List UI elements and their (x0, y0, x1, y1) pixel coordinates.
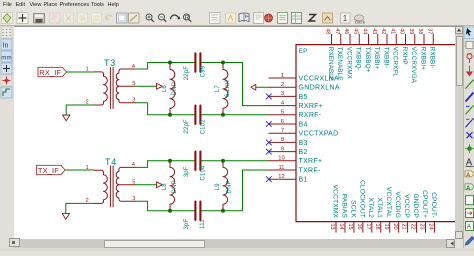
svg-text:38: 38 (417, 28, 423, 34)
svg-text:VCCCP: VCCCP (403, 194, 410, 218)
inductor L6 (170, 63, 175, 115)
svg-text:RXHP: RXHP (401, 47, 408, 65)
svg-text:A: A (467, 224, 472, 231)
svg-text:7: 7 (281, 128, 284, 134)
svg-text:13: 13 (329, 224, 335, 230)
svg-text:3pF: 3pF (184, 166, 190, 177)
svg-text:A: A (466, 173, 470, 179)
svg-text:Back: Back (355, 20, 366, 25)
wire T4 bottom rail right segment to IC pin11 (201, 170, 268, 211)
capacitor C102 (195, 106, 200, 124)
junction node T3 bottom right (221, 113, 225, 117)
svg-text:PABIAS: PABIAS (340, 194, 347, 219)
wire T3 top rail left segment (148, 62, 195, 64)
wire T4 pin5 dangling (135, 184, 156, 186)
C99 labels (184, 65, 207, 80)
svg-text:XTAL2: XTAL2 (367, 198, 374, 219)
transformer T4 (94, 166, 136, 207)
svg-text:C99: C99 (201, 65, 207, 77)
junction node T4 top right (221, 159, 225, 163)
svg-text:12: 12 (278, 174, 284, 180)
top toolbar (0, 11, 474, 26)
svg-text:3: 3 (132, 196, 135, 202)
svg-text:TXENABLE: TXENABLE (336, 47, 343, 81)
svg-text:11: 11 (278, 165, 284, 171)
svg-text:CPOUT-: CPOUT- (430, 192, 437, 218)
svg-text:46: 46 (343, 28, 349, 34)
svg-text:In: In (3, 43, 9, 50)
svg-text:10: 10 (278, 156, 284, 162)
junction node T4 bottom left (168, 209, 172, 213)
svg-text:TX_IF: TX_IF (38, 166, 59, 175)
svg-text:1: 1 (86, 165, 89, 171)
wire T3 pin4 to top rail (136, 63, 148, 70)
svg-text:DNP: DNP (172, 82, 178, 95)
wire TX_IF to T4 pin1 (65, 169, 94, 171)
svg-text:TXBBQ+: TXBBQ+ (364, 47, 371, 73)
wire T4 pin3 to bottom rail (136, 201, 148, 211)
svg-text:SCLK: SCLK (349, 200, 356, 218)
svg-text:42: 42 (380, 28, 386, 34)
svg-text:5: 5 (281, 110, 284, 116)
svg-text:L9: L9 (215, 183, 221, 191)
C104 labels (184, 165, 207, 181)
svg-text:43: 43 (371, 28, 377, 34)
IC top pin stubs 48-37 (332, 34, 434, 44)
no-connect flag pin3 (266, 94, 271, 99)
L6 labels (162, 82, 178, 95)
no-connect flag pin12 (266, 177, 271, 182)
svg-text:VCCDIG: VCCDIG (394, 191, 401, 218)
svg-text:1: 1 (281, 73, 284, 79)
svg-text:A: A (466, 185, 470, 191)
svg-text:R: R (185, 15, 190, 21)
T4 reference label (105, 157, 117, 167)
horizontal scrollbar (14, 239, 455, 248)
IC top pin names (327, 47, 436, 84)
svg-text:VCCRXMX: VCCRXMX (345, 47, 352, 80)
svg-text:8: 8 (281, 137, 284, 143)
svg-text:48: 48 (325, 28, 331, 34)
L9 labels (215, 180, 232, 193)
svg-text:T4: T4 (105, 157, 117, 167)
svg-text:2: 2 (86, 100, 89, 106)
svg-text:L8: L8 (162, 183, 168, 191)
svg-text:2: 2 (281, 82, 284, 88)
svg-text:GNDCP: GNDCP (412, 193, 419, 218)
inductor L7 (223, 63, 228, 115)
left toolbar (0, 26, 15, 251)
svg-text:TXBBQ-: TXBBQ- (355, 47, 362, 71)
svg-text:T3: T3 (104, 58, 116, 68)
svg-text:45: 45 (352, 28, 358, 34)
svg-text:20: 20 (392, 224, 398, 230)
svg-text:16: 16 (356, 224, 362, 230)
svg-text:37: 37 (426, 28, 432, 34)
wire T4 bottom rail left segment (148, 210, 195, 212)
junction node T4 top left (168, 159, 172, 163)
svg-text:TXRF+: TXRF+ (299, 158, 323, 165)
svg-text:1: 1 (343, 14, 348, 23)
marker triangle at T3 pin5 wire end (157, 83, 163, 89)
junction node T3 top left (168, 61, 172, 65)
svg-text:TXRF-: TXRF- (299, 167, 321, 174)
IC bottom pin stubs 13-24 (336, 222, 434, 233)
svg-text:XTAL1: XTAL1 (376, 198, 383, 219)
IC bottom pin names (331, 180, 436, 218)
svg-text:47: 47 (334, 28, 340, 34)
junction node T3 bottom left (168, 113, 172, 117)
svg-text:23: 23 (419, 224, 425, 230)
svg-text:DNP: DNP (227, 180, 233, 193)
svg-text:L6: L6 (162, 85, 168, 93)
svg-text:19: 19 (383, 224, 389, 230)
svg-text:RXRF-: RXRF- (299, 112, 322, 119)
svg-text:111: 111 (200, 219, 206, 229)
svg-text:24: 24 (428, 224, 434, 230)
svg-text:VCCRXFL: VCCRXFL (392, 47, 399, 77)
scrollbar corner button (9, 238, 20, 247)
T3 reference label (104, 58, 116, 68)
wire T3 top rail right segment to IC pin4 (201, 63, 268, 106)
svg-text:VCCTXMX: VCCTXMX (331, 185, 338, 219)
svg-text:RXRF+: RXRF+ (299, 103, 324, 110)
svg-text:CLOCKOUT: CLOCKOUT (358, 180, 365, 218)
svg-text:9: 9 (281, 146, 284, 152)
IC bottom pin numbers (329, 224, 433, 230)
svg-text:C104: C104 (201, 165, 207, 181)
capacitor C104 (195, 152, 200, 170)
svg-text:CPOUT+: CPOUT+ (421, 190, 428, 218)
svg-text:22pF: 22pF (184, 119, 190, 134)
svg-text:2: 2 (86, 198, 89, 204)
svg-text:14: 14 (338, 224, 344, 230)
T3 pin numbers (86, 64, 136, 106)
svg-text:B4: B4 (299, 121, 308, 128)
wire RX_IF to T3 pin1 (67, 71, 94, 73)
wire T4 top rail right segment to IC pin10 (201, 160, 268, 162)
IC U? body outline (296, 45, 456, 222)
wire T4 pin4 to top rail (136, 161, 148, 168)
junction node T4 bottom right (221, 209, 225, 213)
svg-text:21: 21 (401, 224, 407, 230)
svg-text:22: 22 (410, 224, 416, 230)
status bar (0, 248, 474, 251)
inductor L9 (223, 161, 228, 211)
IC pin EP name (299, 48, 308, 55)
wire T3 bottom rail right segment to IC pin5 (201, 114, 268, 116)
svg-text:VCCTXPAD: VCCTXPAD (299, 131, 339, 138)
svg-text:18: 18 (374, 224, 380, 230)
IC left pin numbers (278, 73, 285, 180)
IC left pin names (299, 75, 340, 183)
svg-text:44: 44 (362, 28, 368, 34)
svg-text:RXENABLE: RXENABLE (327, 47, 334, 81)
C102 labels (184, 119, 207, 135)
svg-text:C102: C102 (201, 119, 207, 135)
svg-text:VCCRXVGA: VCCRXVGA (410, 47, 417, 84)
wire IC pin2 dangling (256, 86, 269, 88)
svg-text:22pF: 22pF (184, 66, 190, 81)
svg-text:L7: L7 (215, 85, 221, 93)
schematic canvas (14, 26, 455, 240)
inductor L8 (170, 161, 175, 211)
svg-text:B3: B3 (299, 140, 308, 147)
svg-text:RXBBI+: RXBBI+ (419, 47, 426, 70)
wire T3 pin2 to ground (66, 105, 94, 115)
svg-text:TXBBI-: TXBBI- (382, 47, 389, 68)
svg-text:B5: B5 (299, 94, 308, 101)
wire T3 pin3 to bottom rail (136, 103, 148, 115)
global label TX_IF (37, 165, 66, 175)
IC top pin numbers (325, 28, 433, 34)
svg-text:41: 41 (389, 28, 395, 34)
L7 labels (215, 80, 231, 97)
svg-text:RX_IF: RX_IF (39, 68, 61, 77)
vertical scrollbar (455, 26, 463, 239)
global label RX_IF (38, 67, 67, 77)
no-connect flag pin8 (266, 140, 271, 145)
wire T3 pin5 dangling (135, 85, 156, 87)
right toolbar (463, 26, 474, 251)
svg-text:EP: EP (299, 48, 308, 55)
svg-text:RXBBI-: RXBBI- (429, 47, 436, 69)
svg-text:3: 3 (132, 98, 135, 104)
svg-text:A: A (466, 157, 472, 167)
svg-text:TXBBI+: TXBBI+ (373, 47, 380, 70)
IC left pin lines 1-12 (269, 78, 296, 179)
C111 labels (184, 218, 206, 229)
no-connect flag pin6 (266, 121, 271, 126)
wire T3 bottom rail left segment (148, 114, 195, 116)
svg-text:39: 39 (408, 28, 414, 34)
T4 pin numbers (86, 162, 136, 204)
ground (63, 115, 71, 121)
svg-text:3pF: 3pF (184, 218, 190, 229)
svg-text:1: 1 (86, 67, 89, 73)
svg-text:15: 15 (347, 224, 353, 230)
svg-text:6.2nH: 6.2nH (225, 80, 231, 97)
svg-text:B2: B2 (299, 149, 308, 156)
svg-text:3: 3 (281, 91, 284, 97)
ground T4 (62, 213, 70, 219)
svg-text:GNDRXLNA: GNDRXLNA (299, 85, 340, 92)
svg-text:6: 6 (281, 119, 284, 125)
L8 labels (162, 180, 178, 193)
no-connect flag pin9 (266, 149, 271, 154)
svg-text:DNP: DNP (172, 180, 178, 193)
svg-text:VCCXTAL: VCCXTAL (385, 187, 392, 218)
marker triangle at IC pin2 wire end (251, 84, 256, 90)
wire T4 top rail left segment (148, 160, 195, 162)
marker triangle at T4 pin5 wire end (157, 182, 163, 188)
svg-text:40: 40 (399, 28, 405, 34)
junction node T3 top right (221, 61, 225, 65)
transformer T3 (94, 68, 136, 109)
capacitor C99 (195, 53, 200, 71)
svg-text:B1: B1 (299, 177, 308, 184)
svg-text:17: 17 (365, 224, 371, 230)
capacitor C111 (195, 202, 200, 220)
svg-text:mm: mm (1, 54, 11, 61)
menu bar (0, 0, 474, 11)
wire T4 pin2 to ground (66, 203, 94, 213)
